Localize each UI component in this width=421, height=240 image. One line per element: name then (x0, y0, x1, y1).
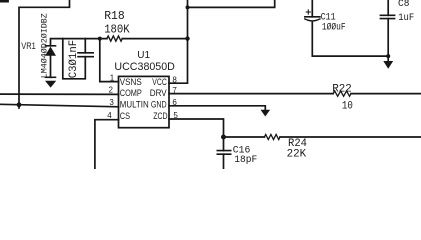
svg-text:4: 4 (107, 111, 112, 120)
capacitor C11 curved plate (305, 19, 320, 21)
resistor R18 (107, 36, 122, 41)
wire VR1 middle (50, 56, 52, 78)
wire C16 bottom (223, 154, 225, 169)
resistor R22 (333, 91, 351, 96)
svg-text:8: 8 (172, 75, 177, 84)
wire COMP net (0, 93, 119, 95)
svg-text:LM4Ø4ØD2ØIDBZ: LM4Ø4ØD2ØIDBZ (39, 13, 49, 78)
wire pin7 DRV net (169, 93, 333, 95)
svg-text:1uF: 1uF (398, 13, 414, 24)
capacitor C8 plates (380, 15, 394, 18)
capacitor C16 plates (217, 151, 230, 155)
svg-text:1ØØuF: 1ØØuF (322, 22, 346, 34)
svg-text:VCC: VCC (152, 77, 167, 87)
svg-text:COMP: COMP (120, 88, 142, 98)
wire R24 right (280, 136, 421, 138)
svg-text:18pF: 18pF (234, 155, 257, 166)
wire VR1 top corner to R18 (51, 39, 107, 46)
wire pin4 CS branch (95, 120, 119, 169)
svg-text:DRV: DRV (150, 88, 167, 98)
svg-text:CS: CS (120, 111, 130, 121)
svg-text:VSNS: VSNS (120, 77, 142, 87)
wire R22 right (351, 93, 421, 95)
wire C11 bottom to C8 (312, 22, 388, 56)
node junction dot rail-to-MULTIN wire (17, 102, 22, 107)
wire pin6 GND branch (169, 106, 265, 110)
arrow ground C8 (383, 61, 393, 69)
svg-text:R18: R18 (104, 9, 125, 23)
arrow VR1 to COMP wire (45, 81, 56, 88)
zener VR1 up triangle (45, 47, 56, 56)
node junction dot VCC top tee (186, 5, 190, 9)
resistor R24 (264, 134, 280, 139)
svg-text:C8: C8 (398, 0, 409, 10)
capacitor C11 top wire (311, 0, 313, 17)
svg-text:C3Ø1nF: C3Ø1nF (68, 40, 80, 79)
node junction dot ZCD/R24/C16 (221, 135, 226, 140)
capacitor C30 plates (78, 53, 93, 57)
wire VCC branch to top edge right (188, 0, 275, 7)
svg-text:UCC38050D: UCC38050D (114, 61, 175, 73)
plus polarity mark C11 (306, 10, 310, 14)
wire VCC vertical from top edge to pin8 (169, 0, 188, 83)
wire MULTIN net (0, 104, 119, 107)
svg-text:R22: R22 (332, 83, 352, 95)
wire R18 right to VCC node (122, 38, 187, 40)
zener VR1 cathode bar top (46, 45, 56, 47)
IC U1 body box (119, 76, 170, 127)
svg-text:1: 1 (110, 74, 115, 83)
svg-text:2: 2 (109, 86, 114, 95)
wire pin5 ZCD branch (169, 119, 224, 151)
svg-text:MULTIN: MULTIN (120, 100, 149, 110)
arrow GND down (261, 110, 271, 117)
wire from top edge down-left to left rail (19, 0, 70, 108)
svg-text:ZCD: ZCD (153, 111, 168, 121)
wire pin1 VSNS branch (100, 39, 119, 82)
svg-text:5: 5 (173, 111, 178, 120)
node junction dot VCC top-wire tee (185, 36, 189, 40)
svg-text:10: 10 (342, 100, 353, 112)
capacitor C30 top stub (84, 39, 86, 53)
svg-text:U1: U1 (137, 50, 150, 61)
svg-text:6: 6 (172, 98, 177, 107)
capacitor C8 top wire (387, 0, 389, 15)
wire top-left corner fragment (0, 0, 8, 3)
node junction dot pin1 branch (98, 37, 102, 41)
zener VR1 bar lower (46, 76, 56, 78)
node junction dot C8/C11 (386, 54, 390, 58)
capacitor C30 loop wires (63, 39, 86, 79)
svg-text:22K: 22K (287, 148, 307, 160)
svg-text:VR1: VR1 (21, 41, 36, 51)
svg-text:180K: 180K (104, 23, 130, 37)
wire C8 bottom (387, 19, 389, 61)
svg-text:7: 7 (172, 86, 177, 95)
svg-text:GND: GND (151, 100, 167, 110)
svg-text:3: 3 (109, 98, 114, 107)
capacitor C11 top plate (305, 16, 320, 18)
wire ZCD to R24 (224, 136, 265, 138)
